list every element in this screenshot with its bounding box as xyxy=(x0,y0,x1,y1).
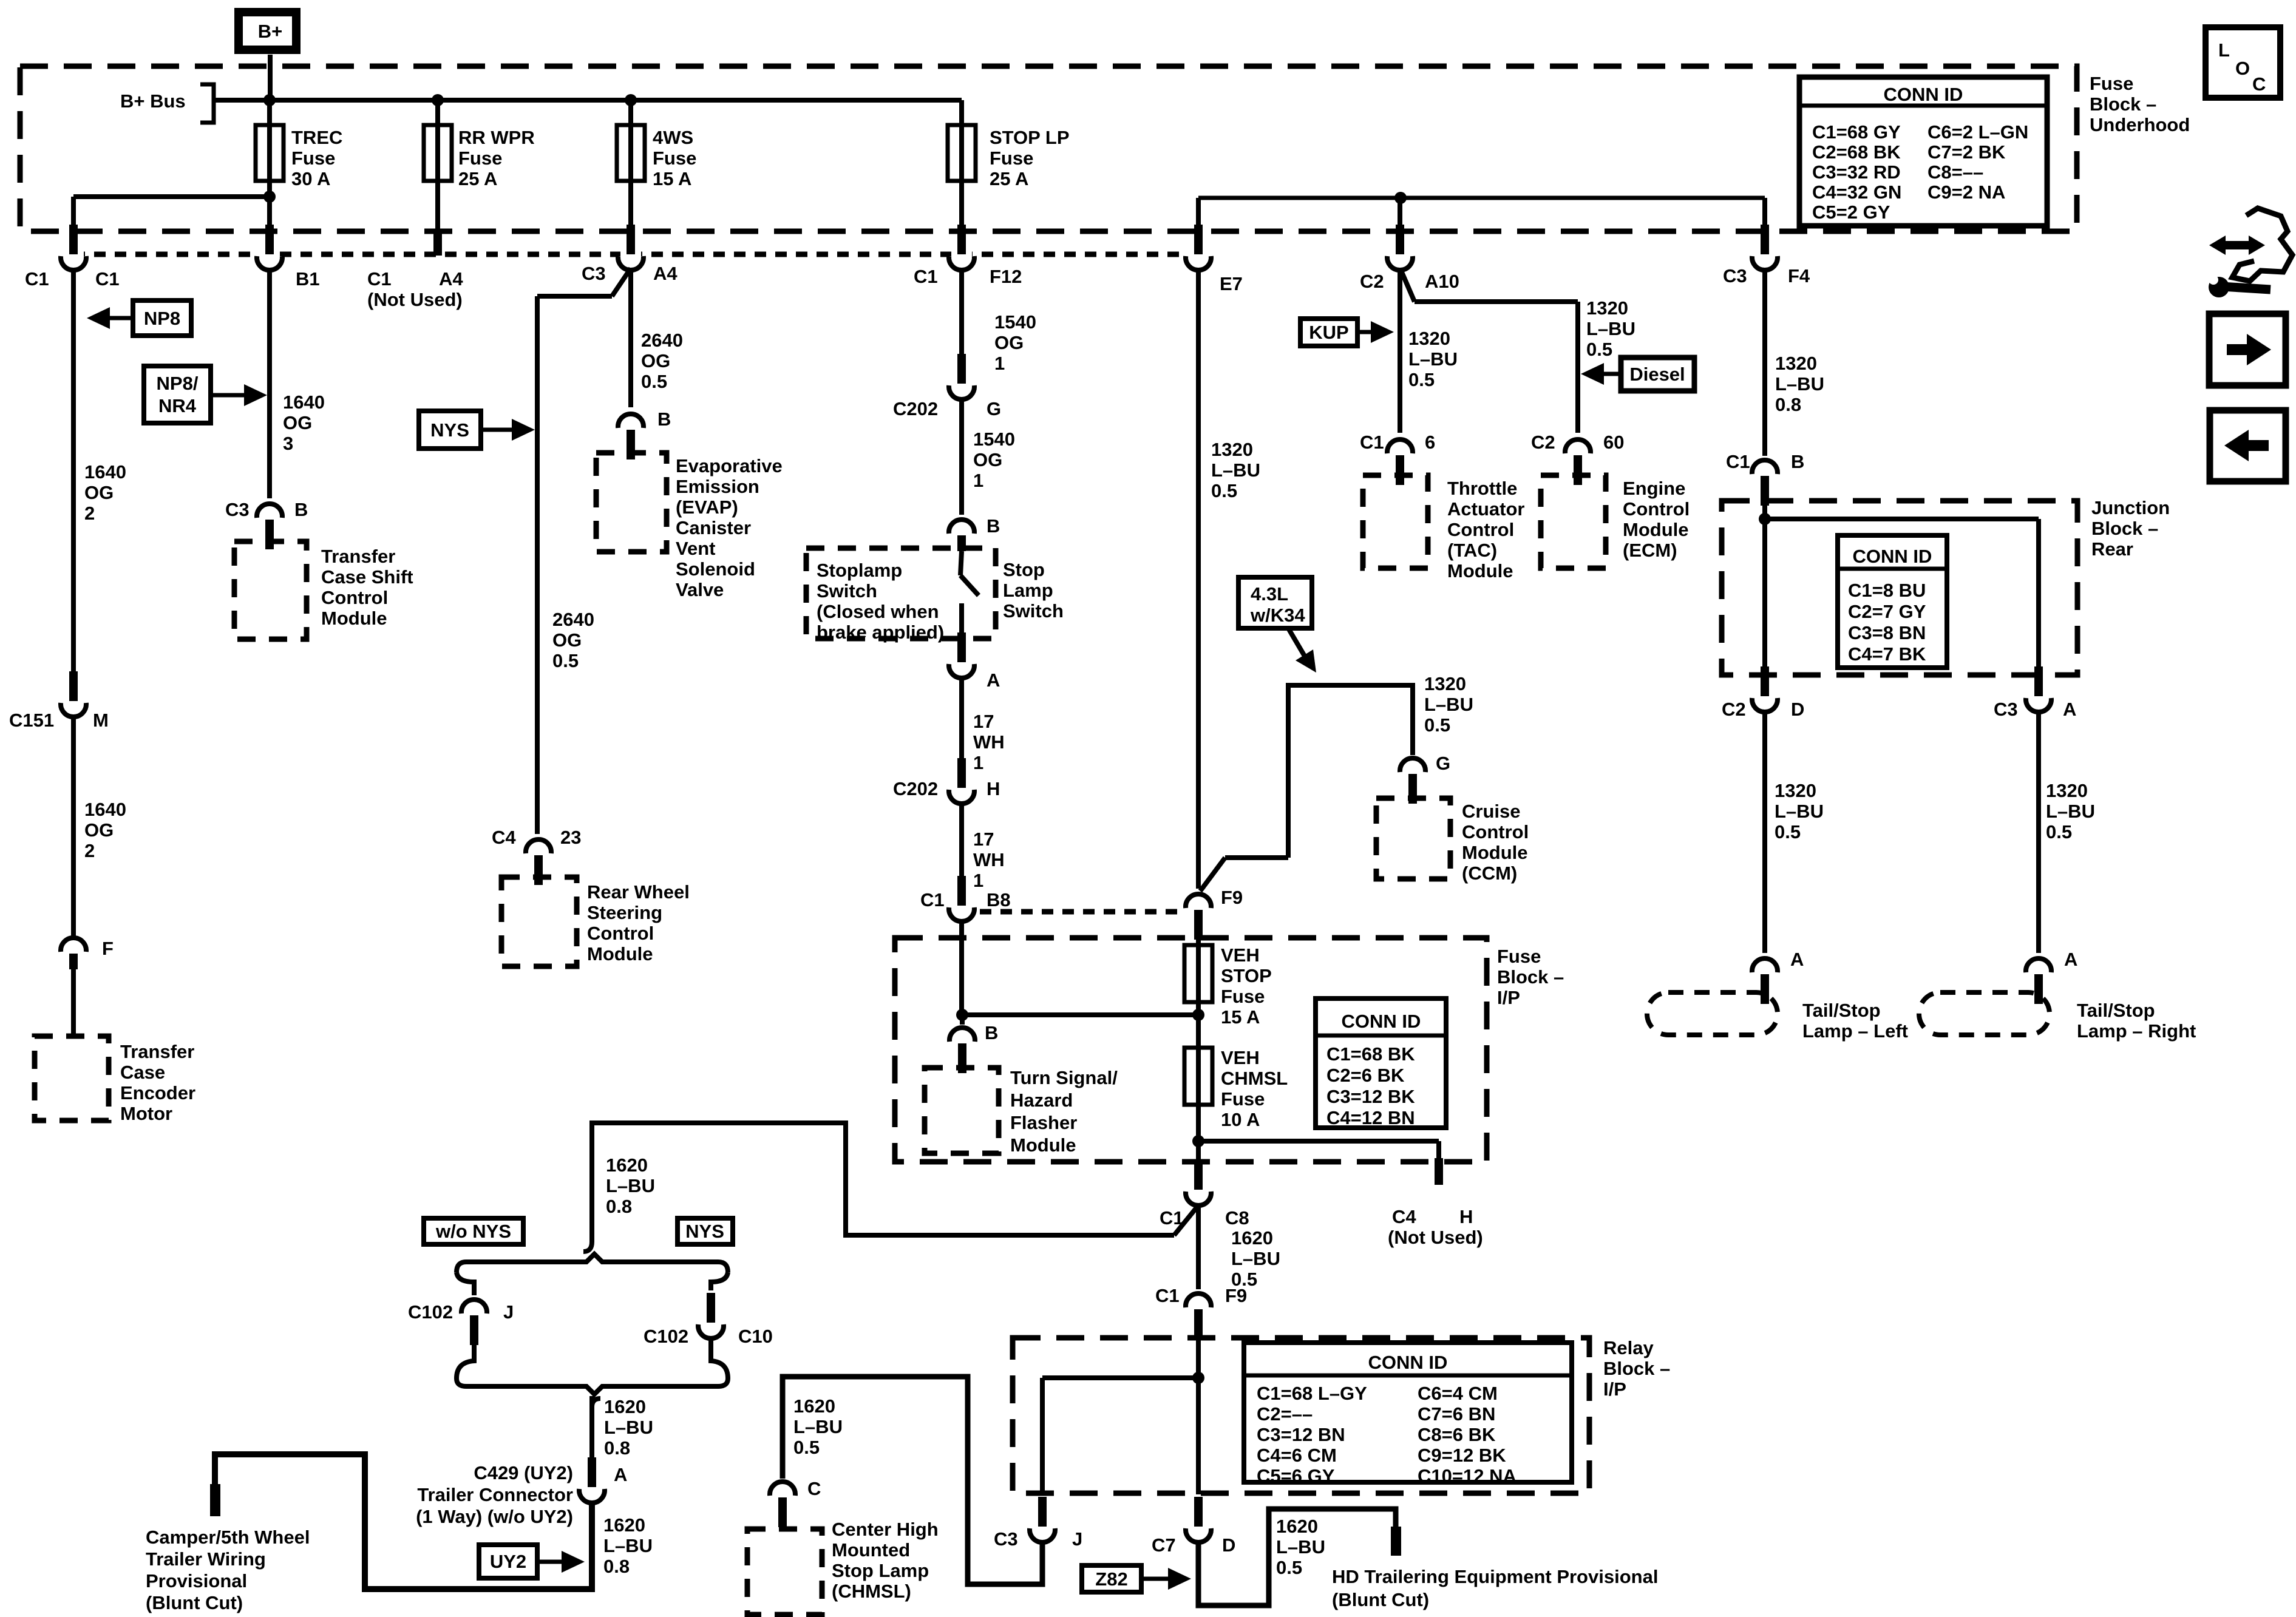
svg-text:Transfer: Transfer xyxy=(321,546,395,567)
svg-text:17: 17 xyxy=(973,711,994,732)
svg-text:1620: 1620 xyxy=(606,1154,648,1176)
lamp Tail/Stop Lamp Left xyxy=(1647,992,1908,1042)
svg-text:A4: A4 xyxy=(439,268,463,290)
svg-text:1640: 1640 xyxy=(84,799,126,820)
svg-text:C202: C202 xyxy=(893,778,938,799)
svg-text:B: B xyxy=(294,499,308,520)
svg-text:(TAC): (TAC) xyxy=(1447,540,1497,561)
connector C4 H (Not Used) xyxy=(1388,1206,1483,1248)
wire feed bus E7-A10-F4 xyxy=(1198,196,1765,200)
svg-text:1320: 1320 xyxy=(1775,353,1817,374)
svg-text:0.5: 0.5 xyxy=(552,650,579,671)
svg-text:C202: C202 xyxy=(893,398,938,419)
connector C3 J xyxy=(994,1497,1082,1550)
svg-text:C1: C1 xyxy=(367,268,392,290)
svg-text:1640: 1640 xyxy=(84,461,126,483)
connector C202 H xyxy=(893,758,1000,804)
svg-text:C3: C3 xyxy=(1723,265,1747,286)
svg-text:F9: F9 xyxy=(1221,887,1243,908)
svg-text:Module: Module xyxy=(1010,1134,1076,1156)
svg-text:Fuse: Fuse xyxy=(990,147,1033,169)
wire G down xyxy=(959,401,964,515)
connector F xyxy=(61,938,114,969)
svg-text:L–BU: L–BU xyxy=(1408,348,1458,370)
svg-text:A10: A10 xyxy=(1425,271,1459,292)
svg-text:Fuse: Fuse xyxy=(291,147,335,169)
svg-text:C5=6 GY: C5=6 GY xyxy=(1257,1465,1335,1486)
svg-text:OG: OG xyxy=(84,482,114,503)
connector B flasher xyxy=(949,1022,998,1073)
svg-text:30 A: 30 A xyxy=(291,168,330,189)
svg-text:H: H xyxy=(987,778,1000,799)
svg-text:C7: C7 xyxy=(1152,1534,1176,1556)
svg-text:F4: F4 xyxy=(1788,265,1810,286)
svg-text:C1: C1 xyxy=(95,268,120,290)
svg-text:C3: C3 xyxy=(225,499,250,520)
wires junction block internal xyxy=(1762,501,1767,679)
module EVAP Canister Vent Solenoid Valve xyxy=(596,453,783,600)
dotted connector face line B8-F9 xyxy=(980,909,1183,915)
svg-text:L–BU: L–BU xyxy=(1775,801,1824,822)
connector C1 F9 relay xyxy=(1155,1285,1247,1339)
connector C151 M xyxy=(9,671,109,731)
svg-text:0.5: 0.5 xyxy=(1408,369,1435,390)
power symbol B+ xyxy=(239,12,296,50)
svg-text:C5=2 GY: C5=2 GY xyxy=(1812,202,1890,223)
svg-text:C1: C1 xyxy=(920,889,945,910)
svg-text:C429 (UY2): C429 (UY2) xyxy=(474,1462,573,1483)
svg-text:Evaporative: Evaporative xyxy=(676,455,783,476)
lamp Tail/Stop Lamp Right xyxy=(1919,992,2196,1042)
icon arrow right box xyxy=(2209,314,2286,385)
relay block IP dashed outline xyxy=(1013,1338,1589,1493)
svg-text:Transfer: Transfer xyxy=(120,1041,194,1062)
svg-text:B+ Bus: B+ Bus xyxy=(120,90,186,112)
svg-text:O: O xyxy=(2235,58,2250,79)
connector C102 J xyxy=(408,1300,514,1345)
junction TREC xyxy=(263,94,276,106)
svg-text:A: A xyxy=(2063,699,2076,720)
svg-text:Provisional: Provisional xyxy=(146,1570,247,1592)
junction RR WPR xyxy=(432,94,444,106)
svg-text:0.5: 0.5 xyxy=(641,371,667,392)
svg-text:0.8: 0.8 xyxy=(606,1196,632,1217)
svg-text:Motor: Motor xyxy=(120,1103,172,1124)
svg-text:J: J xyxy=(1072,1528,1082,1550)
svg-text:D: D xyxy=(1222,1534,1235,1556)
flag NYS xyxy=(419,411,535,449)
svg-text:15 A: 15 A xyxy=(653,168,691,189)
svg-text:G: G xyxy=(987,398,1001,419)
svg-text:C4: C4 xyxy=(1392,1206,1416,1227)
wire drop NYS xyxy=(711,1272,728,1378)
svg-text:G: G xyxy=(1436,753,1450,774)
flag UY2 xyxy=(479,1545,585,1578)
svg-text:C4: C4 xyxy=(492,827,516,848)
svg-text:Junction: Junction xyxy=(2091,497,2170,518)
svg-text:C10: C10 xyxy=(738,1326,773,1347)
svg-text:VEH: VEH xyxy=(1221,944,1260,966)
svg-text:Module: Module xyxy=(587,943,653,964)
svg-text:L–BU: L–BU xyxy=(604,1417,653,1438)
svg-text:C6=4 CM: C6=4 CM xyxy=(1418,1383,1498,1404)
connector C3 B xyxy=(225,499,308,549)
svg-text:VEH: VEH xyxy=(1221,1047,1260,1068)
module CHMSL xyxy=(747,1519,939,1615)
svg-text:UY2: UY2 xyxy=(490,1551,526,1572)
svg-text:OG: OG xyxy=(84,819,114,841)
svg-text:TREC: TREC xyxy=(291,127,342,148)
svg-text:C9=2 NA: C9=2 NA xyxy=(1927,181,2005,203)
svg-text:(Not Used): (Not Used) xyxy=(367,289,463,310)
wire to C4 H not used xyxy=(1198,1139,1439,1144)
svg-text:C102: C102 xyxy=(644,1326,688,1347)
svg-text:(CCM): (CCM) xyxy=(1462,863,1517,884)
svg-text:(Not Used): (Not Used) xyxy=(1388,1227,1483,1248)
svg-text:(1 Way) (w/o UY2): (1 Way) (w/o UY2) xyxy=(416,1506,573,1527)
svg-text:Steering: Steering xyxy=(587,902,662,923)
svg-text:1: 1 xyxy=(973,752,983,773)
svg-text:Hazard: Hazard xyxy=(1010,1090,1073,1111)
svg-text:Tail/Stop: Tail/Stop xyxy=(1802,1000,1881,1021)
svg-text:Module: Module xyxy=(1447,560,1513,581)
svg-text:C3=8 BN: C3=8 BN xyxy=(1848,622,1926,643)
wire A10 down to TAC xyxy=(1398,272,1402,433)
flag NP8 xyxy=(87,300,191,336)
svg-text:CHMSL: CHMSL xyxy=(1221,1068,1288,1089)
svg-text:Module: Module xyxy=(1623,519,1689,540)
svg-text:4WS: 4WS xyxy=(653,127,693,148)
svg-text:(EVAP): (EVAP) xyxy=(676,497,738,518)
svg-text:C4=7 BK: C4=7 BK xyxy=(1848,643,1926,665)
svg-text:B1: B1 xyxy=(296,268,320,290)
svg-text:C3: C3 xyxy=(1994,699,2018,720)
table CONN ID relay block xyxy=(1244,1343,1572,1486)
svg-text:KUP: KUP xyxy=(1309,322,1348,343)
svg-text:C4=12 BN: C4=12 BN xyxy=(1326,1107,1415,1128)
svg-text:Rear Wheel: Rear Wheel xyxy=(587,881,690,903)
svg-text:1320: 1320 xyxy=(1211,439,1253,460)
svg-text:Stoplamp: Stoplamp xyxy=(817,560,902,581)
svg-text:1320: 1320 xyxy=(1586,297,1628,319)
svg-text:Case: Case xyxy=(120,1062,165,1083)
svg-text:Turn Signal/: Turn Signal/ xyxy=(1010,1067,1118,1088)
svg-text:C1: C1 xyxy=(914,266,938,287)
svg-text:1320: 1320 xyxy=(1424,673,1466,694)
connector C1 B8 xyxy=(920,876,1011,921)
svg-text:C102: C102 xyxy=(408,1301,453,1323)
svg-text:I/P: I/P xyxy=(1497,987,1520,1008)
svg-text:OG: OG xyxy=(994,332,1024,353)
svg-text:Module: Module xyxy=(321,608,387,629)
svg-text:J: J xyxy=(503,1301,514,1323)
wire C8 down to relay F9 xyxy=(1196,1207,1201,1289)
svg-text:Switch: Switch xyxy=(1003,600,1064,622)
connector C202 G xyxy=(893,354,1001,419)
connector B stoplamp switch xyxy=(949,515,1000,551)
svg-text:1540: 1540 xyxy=(973,429,1015,450)
svg-text:3: 3 xyxy=(283,433,293,454)
svg-text:STOP: STOP xyxy=(1221,965,1272,986)
svg-text:C7=6 BN: C7=6 BN xyxy=(1418,1403,1495,1425)
wire C3 A down xyxy=(2036,714,2041,953)
svg-text:0.5: 0.5 xyxy=(1276,1557,1302,1578)
svg-text:15 A: 15 A xyxy=(1221,1006,1260,1028)
svg-text:A: A xyxy=(1790,949,1804,970)
svg-text:WH: WH xyxy=(973,849,1005,870)
connector B1 xyxy=(257,225,320,290)
svg-text:1320: 1320 xyxy=(1775,780,1816,801)
wire C8 to option braces xyxy=(1174,1206,1198,1235)
svg-text:Encoder: Encoder xyxy=(120,1082,195,1103)
fuse block underhood dashed outline xyxy=(20,66,2077,231)
module TAC xyxy=(1363,475,1524,581)
svg-text:Camper/5th Wheel: Camper/5th Wheel xyxy=(146,1527,310,1548)
svg-text:Control: Control xyxy=(1462,821,1529,842)
connector C1 F12 xyxy=(914,225,1022,287)
svg-text:NP8: NP8 xyxy=(144,308,180,329)
svg-text:2: 2 xyxy=(84,840,95,861)
svg-text:0.5: 0.5 xyxy=(1424,714,1450,736)
connector C1 A4 (Not Used) xyxy=(367,268,463,310)
wire braces to C429 xyxy=(589,1396,594,1474)
svg-text:OG: OG xyxy=(973,449,1002,470)
junction block rear dashed outline xyxy=(1722,501,2077,675)
svg-text:C: C xyxy=(807,1478,821,1499)
svg-text:60: 60 xyxy=(1603,432,1624,453)
svg-text:C2=6 BK: C2=6 BK xyxy=(1326,1065,1405,1086)
svg-text:Fuse: Fuse xyxy=(653,147,696,169)
wire E7 down xyxy=(1196,272,1201,889)
fuse STOP LP 25A xyxy=(948,100,1070,231)
flag NP8/NR4 xyxy=(144,366,267,423)
svg-text:F12: F12 xyxy=(990,266,1022,287)
fuse VEH STOP 15A xyxy=(1184,944,1272,1028)
svg-text:C1=68 GY: C1=68 GY xyxy=(1812,121,1901,143)
svg-text:C1: C1 xyxy=(25,268,49,290)
svg-text:C7=2 BK: C7=2 BK xyxy=(1927,141,2006,163)
svg-text:1: 1 xyxy=(994,353,1005,374)
svg-text:C1: C1 xyxy=(1360,432,1384,453)
svg-text:Module: Module xyxy=(1462,842,1528,863)
svg-text:C10=12 NA: C10=12 NA xyxy=(1418,1465,1517,1486)
svg-text:1540: 1540 xyxy=(994,311,1036,333)
option brace upper xyxy=(457,1242,728,1272)
svg-text:L–BU: L–BU xyxy=(603,1535,653,1556)
svg-text:Lamp – Left: Lamp – Left xyxy=(1802,1020,1908,1042)
connector C1 B junction block xyxy=(1726,451,1804,506)
connector C2 D xyxy=(1722,666,1804,720)
svg-text:L–BU: L–BU xyxy=(1424,694,1473,715)
blunt cut camper xyxy=(210,1484,220,1516)
svg-text:Fuse: Fuse xyxy=(458,147,502,169)
svg-text:B: B xyxy=(985,1022,998,1043)
svg-text:Lamp: Lamp xyxy=(1003,580,1053,601)
connector C1 C8 xyxy=(1160,1160,1249,1229)
wire F4 down xyxy=(1762,272,1767,456)
svg-text:A: A xyxy=(614,1464,627,1485)
svg-text:1: 1 xyxy=(973,870,983,891)
wire F to encoder motor xyxy=(71,969,76,1038)
wire B+ bus xyxy=(214,98,962,103)
svg-text:C1=68 L–GY: C1=68 L–GY xyxy=(1257,1383,1367,1404)
option brace lower xyxy=(457,1378,728,1407)
svg-text:Lamp – Right: Lamp – Right xyxy=(2077,1020,2196,1042)
wire drop w/o NYS xyxy=(457,1272,474,1378)
junction below TREC fuse xyxy=(263,191,276,203)
svg-text:C8=6 BK: C8=6 BK xyxy=(1418,1424,1496,1445)
flag 4.3L w/K34 xyxy=(1238,577,1316,673)
svg-text:L–BU: L–BU xyxy=(1211,459,1260,481)
dotted connector face line C1 xyxy=(73,252,1183,257)
svg-text:Mounted: Mounted xyxy=(832,1539,910,1561)
connector C3 A4 xyxy=(582,225,678,284)
svg-text:25 A: 25 A xyxy=(458,168,497,189)
wire A4 split diagonal xyxy=(612,268,631,296)
svg-text:1620: 1620 xyxy=(1276,1516,1318,1537)
node B+ Bus xyxy=(120,84,214,123)
switch blade xyxy=(960,551,962,575)
wire F9 into fuse xyxy=(1196,938,1201,1161)
svg-text:Control: Control xyxy=(321,587,388,608)
svg-text:Fuse: Fuse xyxy=(1497,946,1541,967)
svg-text:STOP LP: STOP LP xyxy=(990,127,1070,148)
icon wrench and outline xyxy=(2209,208,2292,297)
connector A stoplamp xyxy=(949,632,1000,691)
svg-text:F9: F9 xyxy=(1225,1285,1247,1306)
module ECM xyxy=(1541,475,1690,568)
svg-text:(CHMSL): (CHMSL) xyxy=(832,1581,911,1602)
junction C4 branch xyxy=(1192,1135,1204,1147)
svg-text:C3=12 BN: C3=12 BN xyxy=(1257,1424,1345,1445)
svg-text:L–BU: L–BU xyxy=(793,1416,843,1437)
svg-text:Case Shift: Case Shift xyxy=(321,566,413,588)
svg-text:CONN ID: CONN ID xyxy=(1853,546,1932,567)
connector B EVAP xyxy=(618,408,671,459)
svg-text:1620: 1620 xyxy=(604,1396,646,1417)
wire below CHMSL fuse xyxy=(1196,1103,1201,1161)
svg-text:F: F xyxy=(102,938,114,959)
connector C429 A trailer connector xyxy=(579,1457,627,1503)
svg-text:C1=68 BK: C1=68 BK xyxy=(1326,1043,1415,1065)
svg-text:C2: C2 xyxy=(1531,432,1555,453)
svg-text:1620: 1620 xyxy=(793,1395,835,1417)
module Transfer Case Shift Control Module xyxy=(234,541,413,639)
svg-text:0.8: 0.8 xyxy=(1775,394,1801,415)
junction 4WS xyxy=(625,94,637,106)
connector C2 A10 xyxy=(1360,225,1459,292)
flag w/o NYS xyxy=(424,1218,523,1244)
svg-text:Valve: Valve xyxy=(676,579,724,600)
svg-text:Tail/Stop: Tail/Stop xyxy=(2077,1000,2155,1021)
svg-text:OG: OG xyxy=(552,629,582,651)
svg-text:w/o NYS: w/o NYS xyxy=(435,1221,511,1242)
svg-text:C2=68 BK: C2=68 BK xyxy=(1812,141,1901,163)
module Cruise Control Module xyxy=(1376,798,1529,884)
svg-text:B: B xyxy=(657,408,671,430)
svg-text:w/K34: w/K34 xyxy=(1250,605,1305,626)
flag Z82 xyxy=(1082,1565,1191,1592)
junction VEH STOP xyxy=(1192,1009,1204,1021)
svg-text:Relay: Relay xyxy=(1603,1337,1654,1358)
svg-text:Fuse: Fuse xyxy=(1221,1088,1265,1110)
fuse block IP dashed outline xyxy=(895,938,1487,1162)
svg-text:L: L xyxy=(2218,39,2230,61)
wire RR WPR down (not used) xyxy=(433,230,442,256)
svg-text:(Blunt Cut): (Blunt Cut) xyxy=(1332,1589,1429,1610)
svg-text:0.8: 0.8 xyxy=(604,1437,630,1459)
connector A tail lamp right xyxy=(2026,949,2077,1004)
fuse TREC 30A xyxy=(267,100,272,231)
svg-text:C8: C8 xyxy=(1225,1207,1249,1229)
svg-text:Underhood: Underhood xyxy=(2090,114,2190,135)
wire C151 to F xyxy=(71,719,76,936)
svg-text:C: C xyxy=(2252,73,2266,95)
module Turn Signal Hazard Flasher xyxy=(925,1067,1118,1156)
table CONN ID junction block xyxy=(1838,535,1947,668)
svg-text:Switch: Switch xyxy=(817,580,877,602)
junction relay xyxy=(1192,1372,1204,1384)
fuse 4WS 15A xyxy=(617,100,696,231)
svg-text:CONN ID: CONN ID xyxy=(1368,1352,1448,1373)
junction dot block rear xyxy=(1759,513,1771,525)
wire H down xyxy=(959,805,964,886)
svg-text:RR WPR: RR WPR xyxy=(458,127,535,148)
svg-text:2: 2 xyxy=(84,503,95,524)
svg-text:25 A: 25 A xyxy=(990,168,1028,189)
connector C7 D xyxy=(1152,1497,1235,1556)
svg-text:4.3L: 4.3L xyxy=(1251,583,1288,605)
svg-text:C3: C3 xyxy=(994,1528,1018,1550)
svg-text:C151: C151 xyxy=(9,710,54,731)
svg-text:D: D xyxy=(1791,699,1804,720)
svg-text:L–BU: L–BU xyxy=(606,1175,655,1196)
svg-text:Block –: Block – xyxy=(1603,1358,1670,1379)
svg-text:Block –: Block – xyxy=(2090,93,2156,115)
table CONN ID underhood xyxy=(1799,77,2047,226)
svg-text:2640: 2640 xyxy=(641,330,683,351)
blunt cut HD trailering xyxy=(1391,1527,1401,1556)
svg-text:0.5: 0.5 xyxy=(1775,821,1801,842)
wire C1 down xyxy=(71,272,76,688)
svg-text:Engine: Engine xyxy=(1623,478,1685,499)
svg-text:B8: B8 xyxy=(987,889,1011,910)
svg-text:Canister: Canister xyxy=(676,517,751,538)
svg-text:Center High: Center High xyxy=(832,1519,939,1540)
svg-text:L–BU: L–BU xyxy=(2046,801,2095,822)
module Rear Wheel Steering Control Module xyxy=(501,877,690,966)
wire F12 down xyxy=(959,272,964,364)
svg-text:NP8/: NP8/ xyxy=(157,373,199,394)
flag KUP xyxy=(1300,319,1394,346)
wire TREC to C1 branch xyxy=(73,194,270,199)
svg-text:17: 17 xyxy=(973,829,994,850)
connector F9 xyxy=(1186,887,1243,940)
svg-text:1: 1 xyxy=(973,470,983,491)
svg-text:OG: OG xyxy=(283,412,312,433)
svg-text:Throttle: Throttle xyxy=(1447,478,1517,499)
svg-text:C9=12 BK: C9=12 BK xyxy=(1418,1445,1506,1466)
table CONN ID fuse block IP xyxy=(1316,998,1446,1128)
svg-text:Control: Control xyxy=(1447,519,1514,540)
svg-text:L–BU: L–BU xyxy=(1775,373,1824,395)
svg-text:C2=7 GY: C2=7 GY xyxy=(1848,601,1926,622)
svg-text:C1: C1 xyxy=(1155,1285,1180,1306)
connector C3 F4 xyxy=(1723,225,1810,286)
svg-text:Flasher: Flasher xyxy=(1010,1112,1077,1133)
svg-text:WH: WH xyxy=(973,731,1005,753)
connector E7 xyxy=(1186,225,1243,294)
